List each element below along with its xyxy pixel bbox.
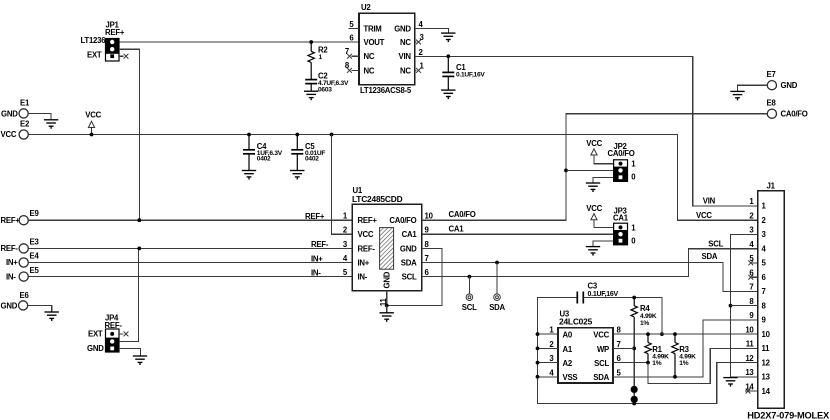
wire JP1 pin3 no-connect stub	[119, 55, 123, 57]
net label REF-	[311, 240, 329, 249]
junction R4 at WP row	[632, 347, 636, 351]
pin 9 of J1	[749, 311, 766, 325]
wire JP1 middle pin to REF+ net	[119, 49, 139, 220]
svg-text:REF-: REF-	[1, 244, 19, 253]
net label VCC	[696, 211, 712, 220]
ground at C2	[304, 91, 318, 100]
pin 13 of J1	[745, 368, 770, 382]
wire J1 pin 8 stub	[731, 305, 758, 307]
terminal E7	[767, 70, 798, 90]
svg-text:REF+: REF+	[305, 212, 325, 221]
svg-text:10: 10	[745, 325, 754, 334]
svg-text:10: 10	[762, 330, 771, 339]
capacitor C5	[291, 135, 325, 171]
svg-text:VIN: VIN	[703, 196, 716, 205]
junction SDA test point	[495, 261, 499, 265]
ground at C4	[242, 171, 256, 180]
junction R1 top on VCC row	[646, 332, 650, 336]
svg-text:GND: GND	[781, 81, 798, 90]
pin 1 of U1	[343, 212, 348, 221]
exposed pad GND of U1 (hatched)	[380, 228, 394, 289]
svg-text:7: 7	[425, 254, 429, 263]
jumper JP4 REF-	[87, 313, 122, 353]
svg-text:SCL: SCL	[594, 359, 609, 368]
wire REF+ net E9 to U1 pin 1	[28, 219, 352, 221]
net label IN-	[311, 268, 321, 277]
svg-text:GND: GND	[1, 301, 18, 310]
pin 1 A0 of U3	[538, 326, 559, 335]
svg-text:VCC: VCC	[358, 230, 374, 239]
svg-text:C3: C3	[588, 281, 598, 290]
svg-text:E6: E6	[20, 291, 30, 300]
junction R4 line at bottom bus	[632, 402, 636, 406]
terminal E1	[1, 98, 30, 118]
svg-text:R3: R3	[679, 345, 689, 354]
junction J1 pin 8 on ground vertical	[729, 304, 733, 308]
net label SDA	[702, 252, 718, 261]
junction A2 on ground bus	[536, 361, 540, 365]
wire EEPROM ground bus (C3 left, U3 left pins, bottom run to J1 pin 12)	[538, 298, 758, 404]
pin 6 of J1	[749, 268, 766, 282]
terminal E6	[1, 291, 30, 310]
jumper JP1 REF+	[81, 20, 125, 61]
svg-text:VCC: VCC	[1, 130, 17, 139]
resistor R4	[631, 298, 657, 327]
pin 10 of J1	[745, 325, 770, 339]
svg-text:0.1UF,16V: 0.1UF,16V	[588, 291, 619, 298]
svg-text:0.1UF,16V: 0.1UF,16V	[456, 71, 485, 78]
pin 7 WP of U3	[617, 340, 621, 349]
svg-text:U2: U2	[361, 3, 371, 12]
junction R3 bottom on SDA row	[673, 375, 677, 379]
svg-text:CA0/FO: CA0/FO	[389, 216, 416, 225]
svg-text:J1: J1	[767, 182, 776, 191]
pin 12 of J1	[745, 354, 770, 368]
net label CA1	[449, 224, 465, 233]
no-connect X at J1 pin 5	[748, 261, 753, 266]
svg-text:E7: E7	[767, 70, 776, 79]
no-connect X at JP1 pin 3	[124, 54, 129, 59]
svg-text:VSS: VSS	[563, 373, 578, 382]
svg-text:CA1: CA1	[613, 214, 629, 223]
via dot lower below U3	[631, 396, 638, 403]
pin 10 of U1	[425, 212, 434, 221]
junction JP2 on CA0/FO vertical	[564, 169, 568, 173]
svg-text:IN+: IN+	[6, 258, 18, 267]
svg-text:CA0/FO: CA0/FO	[608, 149, 635, 158]
capacitor C2	[305, 71, 349, 93]
svg-text:CA1: CA1	[402, 230, 418, 239]
svg-text:13: 13	[762, 373, 771, 382]
wire E6 to ground	[28, 305, 52, 311]
junction C5 on VCC rail	[295, 133, 299, 137]
svg-text:IN+: IN+	[311, 254, 323, 263]
svg-text:SCL: SCL	[708, 239, 723, 248]
svg-text:VCC: VCC	[586, 139, 602, 148]
svg-text:12: 12	[745, 354, 754, 363]
svg-text:GND: GND	[87, 344, 104, 353]
svg-text:GND: GND	[1, 109, 18, 118]
test point SDA	[489, 294, 505, 312]
pin 5 TRIM of U2	[349, 20, 360, 29]
op-amp U2 LT1236ACS8-5 voltage reference	[359, 3, 415, 95]
wire SCL test point drop	[468, 277, 470, 294]
pin 8 VCC of U3	[617, 326, 622, 335]
via dot upper below U3	[631, 386, 638, 393]
svg-text:EXT: EXT	[88, 330, 103, 339]
svg-text:14: 14	[762, 387, 771, 396]
svg-text:12: 12	[762, 358, 771, 367]
svg-text:NC: NC	[364, 52, 375, 61]
pin 2 of U1	[343, 226, 348, 235]
junction C4 on VCC rail	[247, 133, 251, 137]
svg-text:0402: 0402	[257, 155, 271, 162]
pin 7 NC of U2	[345, 47, 359, 59]
power symbol VCC at JP3	[586, 204, 602, 220]
ADC U1 LTC2485CDD	[352, 186, 422, 291]
pin 11 of J1	[746, 340, 770, 354]
pin 8 of J1	[749, 297, 766, 311]
jumper JP2 CA0/FO	[608, 142, 637, 182]
wire JP2 pin 0 to ground	[593, 177, 614, 183]
svg-text:0603: 0603	[318, 86, 332, 93]
junction VCC drop to U1	[330, 133, 334, 137]
wire IN+ net E4 to U1 pin 4	[28, 262, 352, 264]
wire VCC row U3 pin 8 to J1 pin 10	[613, 333, 758, 335]
wire SCL row to J1 pin 11	[648, 348, 758, 383]
svg-text:E5: E5	[30, 266, 40, 275]
svg-text:REF+: REF+	[105, 28, 125, 37]
wire CA1 net U1 pin 9 to JP3	[422, 233, 614, 235]
wire pin 11 to ground	[386, 306, 388, 313]
svg-text:1%: 1%	[679, 360, 688, 367]
svg-text:SDA: SDA	[489, 303, 505, 312]
svg-text:SCL: SCL	[402, 273, 417, 282]
svg-text:LT1236ACS8-5: LT1236ACS8-5	[360, 86, 412, 95]
wire LT1236 output net (JP1 pin1 to U2 VOUT)	[119, 41, 359, 43]
svg-text:10: 10	[425, 212, 434, 221]
capacitor C1	[442, 56, 485, 90]
wire CA0/FO to JP2 middle pin	[566, 169, 614, 171]
svg-text:SDA: SDA	[702, 252, 718, 261]
pin 7 of J1	[749, 283, 765, 297]
junction pin 11 ground	[385, 304, 389, 308]
junction R2 on VOUT net	[309, 40, 313, 44]
svg-text:TRIM: TRIM	[364, 24, 382, 33]
wire J1 pin 3 to ground vertical	[731, 235, 758, 377]
pin 1 of J1	[749, 197, 766, 211]
ground at JP3	[586, 247, 600, 256]
junction A1 on ground bus	[536, 347, 540, 351]
svg-text:E8: E8	[767, 99, 777, 108]
wire JP4 middle pin to REF- net	[119, 248, 139, 341]
pin 2 VIN of U2	[419, 48, 424, 57]
wire SCL net U1 pin 6 to J1 pin 4	[422, 249, 758, 277]
wire E7 to ground	[738, 85, 768, 91]
svg-text:24LC025: 24LC025	[559, 317, 593, 327]
power symbol VCC at JP2	[586, 139, 602, 155]
junction JP1 to REF+	[137, 218, 141, 222]
svg-text:REF-: REF-	[358, 244, 376, 253]
no-connect X at J1 pin 14	[746, 389, 751, 394]
svg-text:A1: A1	[563, 345, 573, 354]
pin 6 VOUT of U2	[349, 34, 354, 43]
junction SCL test point	[468, 275, 472, 279]
pin 5 of J1	[749, 254, 766, 268]
wire SDA net U1 pin 7 to J1 pin 7	[422, 263, 758, 292]
svg-text:CA0/FO: CA0/FO	[781, 110, 808, 119]
pin 3 of U1	[343, 240, 348, 249]
pin 3 NC of U2	[415, 33, 425, 44]
wire J1 pin 14 stub	[745, 390, 758, 392]
svg-text:REF-: REF-	[311, 240, 329, 249]
svg-text:IN-: IN-	[6, 272, 16, 281]
wire VCC rail	[28, 135, 757, 221]
no-connect X at J1 pin 6	[748, 275, 753, 280]
terminal E5	[6, 266, 39, 282]
ground at E7	[730, 91, 744, 100]
svg-text:E9: E9	[30, 209, 40, 218]
terminal E4	[6, 252, 39, 268]
pin 5 of U1	[343, 268, 348, 277]
svg-text:1%: 1%	[640, 320, 649, 327]
ground at C1	[441, 90, 455, 99]
pin 4 VSS of U3	[538, 368, 559, 377]
wire REF- net E3 to U1 pin 3	[28, 247, 352, 249]
svg-text:SDA: SDA	[593, 373, 609, 382]
svg-text:LT1236: LT1236	[81, 36, 107, 45]
wire SDA row U3 to J1 pin 9	[613, 320, 758, 377]
ground at J1	[723, 378, 737, 387]
wire SDA test point drop	[496, 263, 498, 294]
svg-text:7: 7	[762, 287, 766, 296]
pin 14 of J1	[745, 382, 770, 396]
junction R1 bottom on SCL row	[646, 361, 650, 365]
pin 9 of U1	[425, 226, 430, 235]
wire VIN net U2 to J1 pin 1	[415, 56, 758, 206]
terminal E3	[1, 238, 40, 253]
ground at U2 pin 4	[441, 33, 455, 42]
pin 3 A2 of U3	[538, 354, 559, 363]
junction VCC delta	[90, 133, 94, 137]
svg-text:1%: 1%	[652, 360, 661, 367]
svg-text:VCC: VCC	[586, 204, 602, 213]
net label CA0/FO	[449, 210, 476, 219]
pin 2 of J1	[749, 211, 766, 225]
wire R4 bottom through to bottom bus	[633, 317, 635, 404]
svg-text:REF+: REF+	[1, 216, 21, 225]
svg-text:VOUT: VOUT	[364, 38, 385, 47]
wire VCC arrow to JP2 pin 1	[594, 155, 614, 164]
ground at C5	[290, 171, 304, 180]
wire JP4 EXT stub	[119, 333, 123, 335]
ground at U1 pin 11	[380, 313, 394, 322]
junction JP4 to REF-	[137, 247, 141, 251]
svg-text:SDA: SDA	[401, 259, 417, 268]
svg-text:E4: E4	[30, 252, 40, 261]
svg-text:GND: GND	[394, 24, 411, 33]
svg-text:R1: R1	[652, 345, 662, 354]
svg-text:EXT: EXT	[87, 50, 102, 59]
pin 6 SCL of U3	[617, 354, 622, 363]
wire VCC arrow to JP3 pin 1	[594, 220, 614, 228]
svg-text:E2: E2	[20, 120, 30, 129]
svg-text:CA0/FO: CA0/FO	[449, 210, 476, 219]
svg-text:7: 7	[617, 340, 621, 349]
svg-text:NC: NC	[364, 66, 375, 75]
svg-text:A2: A2	[563, 359, 573, 368]
svg-text:GND: GND	[400, 244, 417, 253]
svg-text:HD2X7-079-MOLEX: HD2X7-079-MOLEX	[747, 410, 830, 420]
pin 8 of U1	[425, 240, 430, 249]
svg-text:VCC: VCC	[85, 111, 101, 120]
svg-text:4.99K: 4.99K	[640, 313, 657, 320]
net label SCL	[708, 239, 723, 248]
junction C1 on VIN net	[446, 54, 450, 58]
svg-text:A0: A0	[563, 331, 573, 340]
capacitor C4	[243, 135, 283, 171]
jumper JP3 CA1	[613, 206, 636, 245]
terminal E8	[767, 99, 808, 119]
svg-text:WP: WP	[597, 345, 609, 354]
test point SCL	[462, 294, 477, 312]
svg-text:11: 11	[746, 340, 755, 349]
ground at E1	[44, 120, 58, 129]
wire IN- net E5 to U1 pin 5	[28, 276, 352, 278]
terminal E2	[1, 120, 30, 140]
wire VCC to U1 pin 2	[332, 135, 353, 235]
wire JP3 pin 0 to ground	[593, 241, 614, 247]
wire WP row to R4	[613, 347, 634, 349]
svg-text:0402: 0402	[305, 155, 319, 162]
ground at E6	[45, 312, 59, 321]
resistor R1	[645, 334, 669, 367]
wire U1 pin 8 GND return	[387, 248, 442, 305]
svg-text:14: 14	[745, 382, 754, 391]
pin 4 of U1	[343, 254, 348, 263]
junction A0 on ground bus	[536, 332, 540, 336]
svg-text:IN+: IN+	[358, 259, 370, 268]
wire CA0/FO net U1 pin 10 to E8	[422, 114, 767, 221]
svg-text:REF+: REF+	[358, 216, 378, 225]
svg-text:E1: E1	[20, 98, 30, 107]
svg-text:IN-: IN-	[311, 268, 321, 277]
svg-text:SCL: SCL	[462, 303, 477, 312]
svg-text:LTC2485CDD: LTC2485CDD	[352, 194, 403, 204]
svg-text:GND: GND	[382, 271, 391, 288]
svg-text:IN-: IN-	[358, 273, 368, 282]
svg-text:11: 11	[762, 344, 771, 353]
net label VIN	[703, 196, 716, 205]
svg-text:E3: E3	[30, 238, 40, 247]
wire J1 pin 5 stub	[752, 262, 758, 264]
wire J1 pin 6 stub	[752, 276, 758, 278]
wire E1 to ground	[28, 113, 51, 119]
connector part number label	[747, 410, 830, 420]
svg-text:NC: NC	[400, 66, 411, 75]
pin 7 of U1	[425, 254, 429, 263]
pin 3 of J1	[749, 226, 766, 240]
pin 8 NC of U2	[345, 61, 359, 73]
svg-text:NC: NC	[400, 38, 411, 47]
ground at JP2	[586, 183, 600, 192]
net label IN+	[311, 254, 323, 263]
junction R4 top on C3 net	[632, 296, 636, 300]
terminal E9	[1, 209, 40, 225]
ground at JP4	[133, 356, 147, 365]
svg-text:13: 13	[745, 368, 754, 377]
connector J1 HD2X7-079-MOLEX	[758, 182, 785, 409]
pin 11 of U1 (paddle)	[379, 291, 388, 307]
svg-text:7: 7	[749, 283, 753, 292]
svg-text:VCC: VCC	[696, 211, 712, 220]
svg-text:1: 1	[319, 54, 323, 61]
wire J1 pin 13 stub	[731, 376, 758, 378]
capacitor C3	[577, 281, 618, 303]
pin 6 of U1	[425, 268, 430, 277]
pin 2 A1 of U3	[538, 340, 559, 349]
junction R3 top on VCC row	[673, 332, 677, 336]
svg-text:R4: R4	[640, 304, 650, 313]
svg-text:CA1: CA1	[449, 224, 465, 233]
wire C3 right to VCC row	[583, 298, 662, 335]
EEPROM U3 24LC025	[558, 310, 613, 383]
junction VSS on ground bus	[536, 375, 540, 379]
pin 4 GND of U2	[419, 20, 424, 29]
junction C3 corner on VCC row	[660, 332, 664, 336]
pin 4 of J1	[749, 240, 766, 254]
wire U2 GND to ground	[415, 29, 449, 33]
no-connect X at JP4 EXT	[124, 332, 129, 337]
net label REF+	[305, 212, 325, 221]
resistor R3	[672, 334, 696, 377]
pin 1 NC of U2	[415, 61, 425, 72]
power symbol VCC (delta)	[85, 111, 101, 135]
svg-text:VCC: VCC	[593, 331, 609, 340]
svg-text:VIN: VIN	[399, 52, 412, 61]
resistor R2	[308, 42, 328, 80]
wire JP4 GND pin to ground	[119, 348, 140, 355]
wire SCL row U3 to R1	[613, 362, 648, 364]
pin 5 SDA of U3	[617, 368, 622, 377]
